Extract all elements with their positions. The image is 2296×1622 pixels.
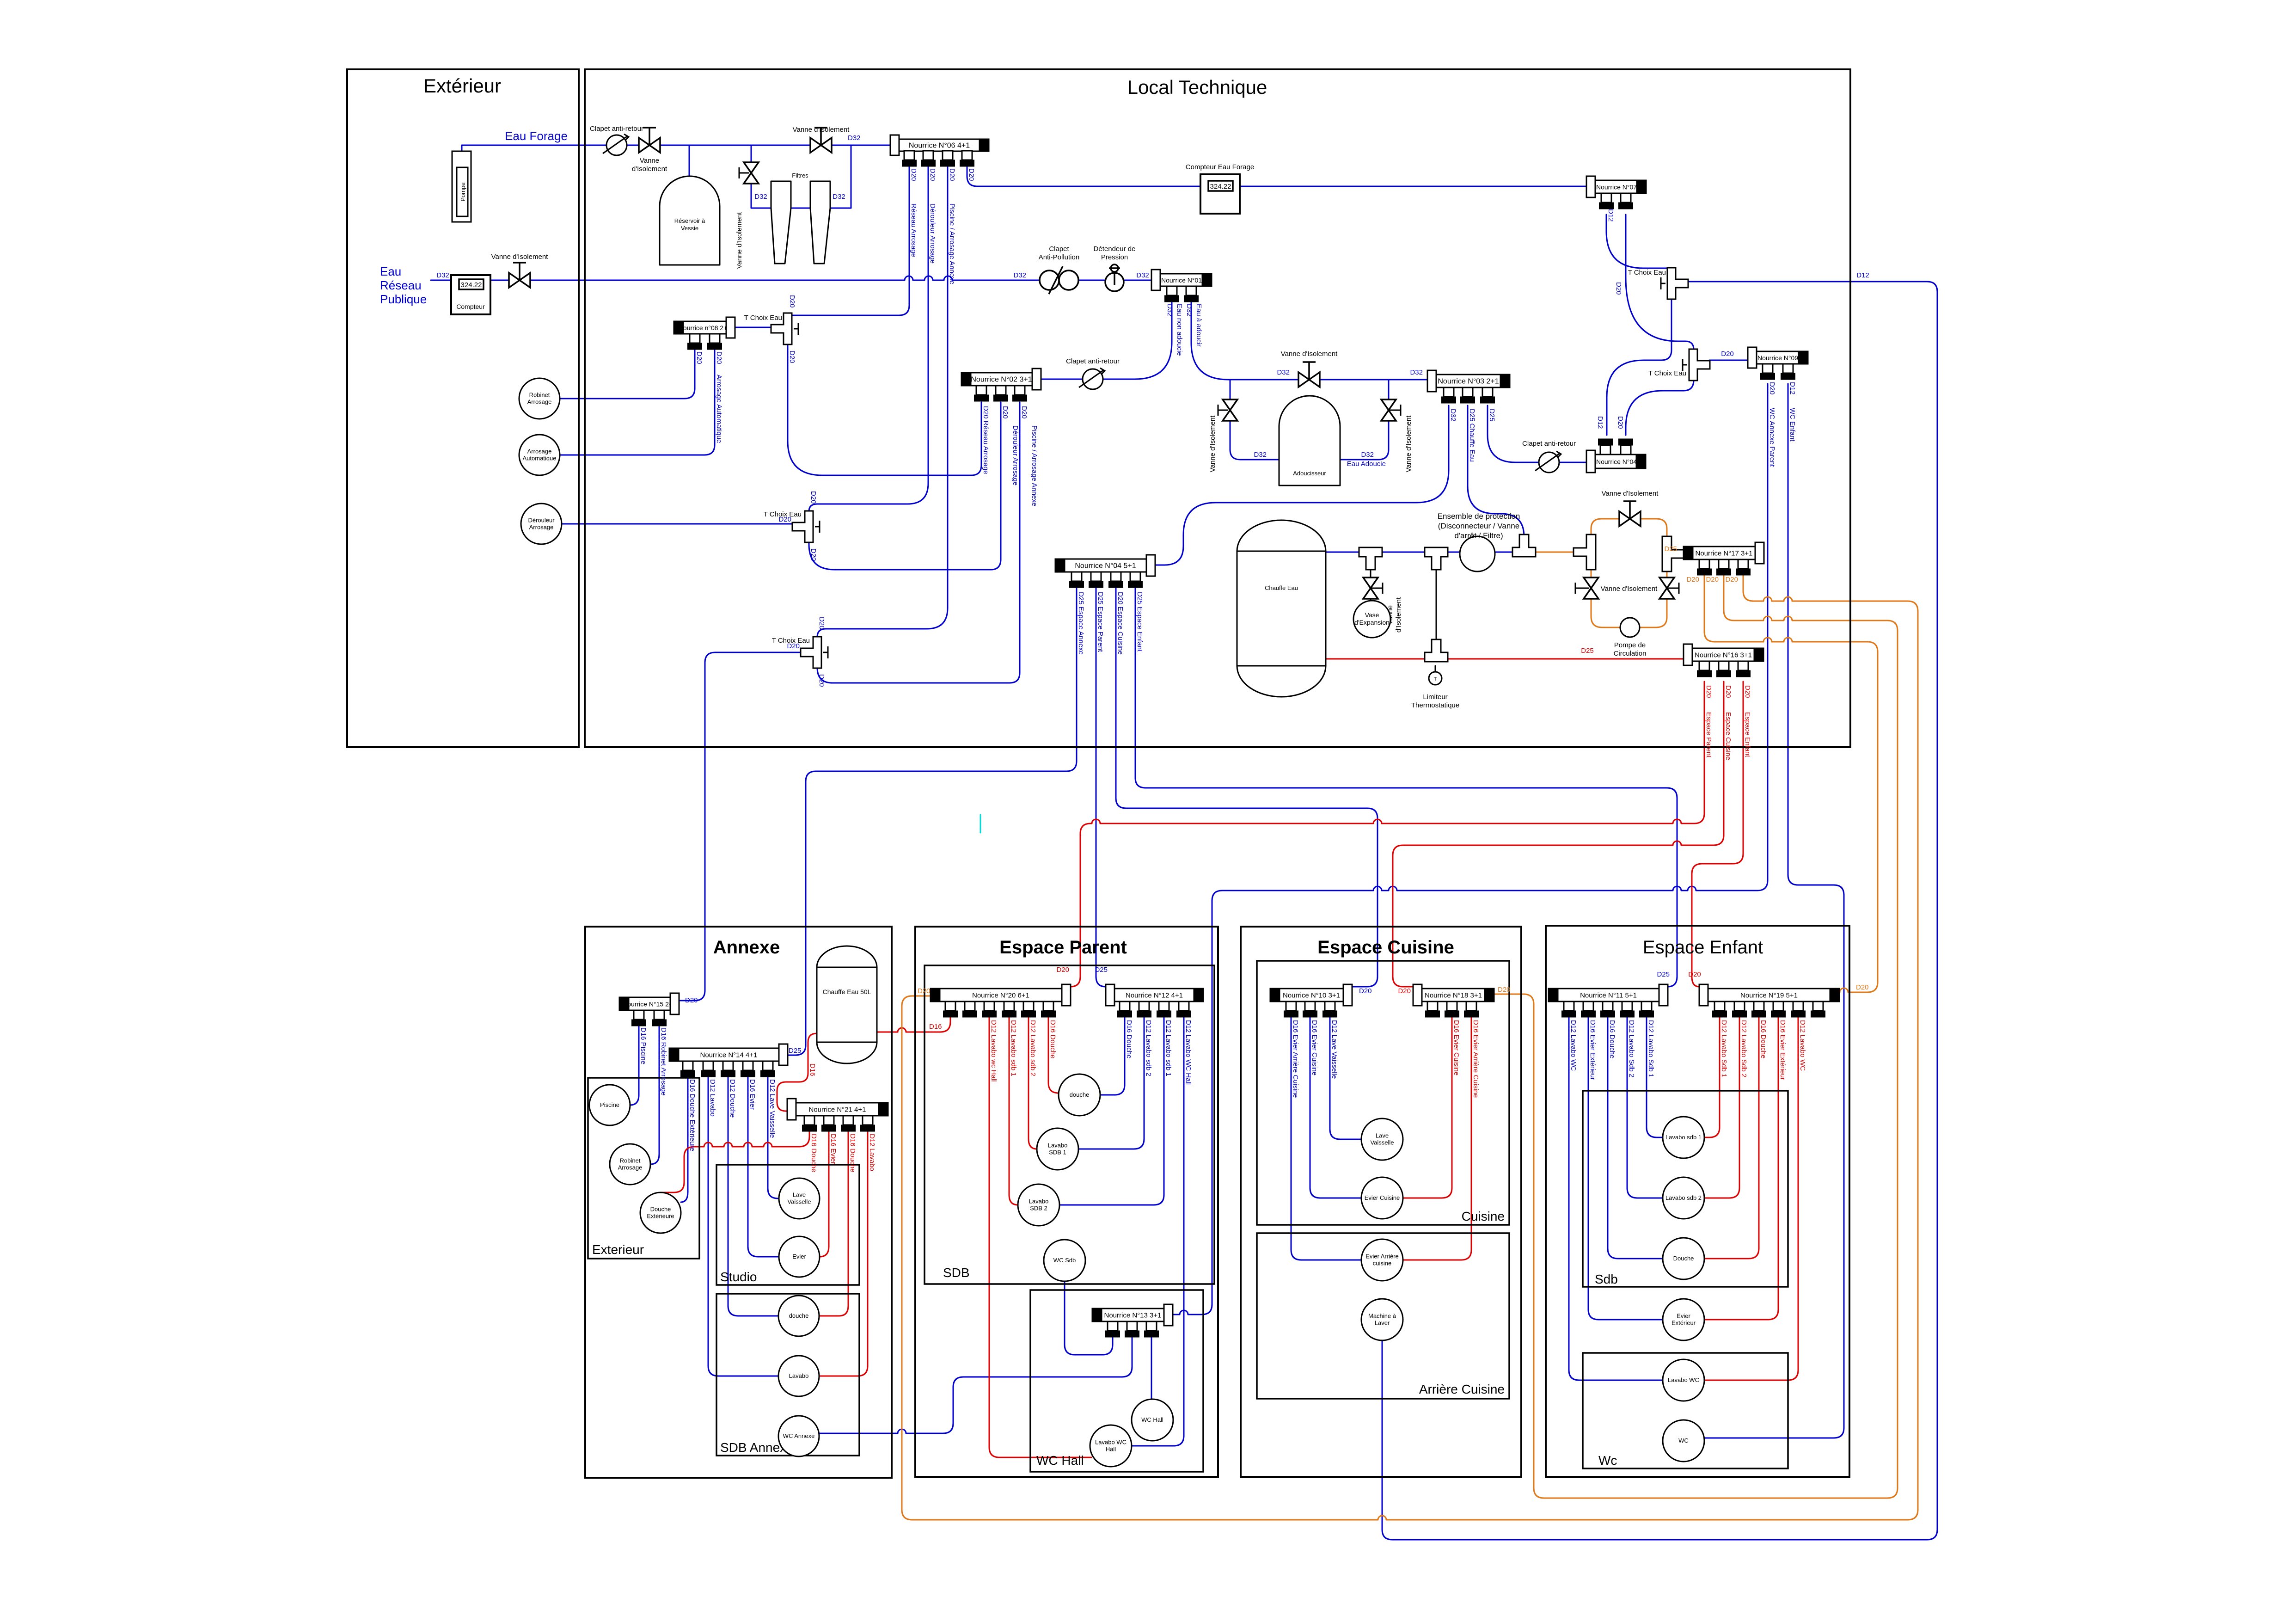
svg-text:D20: D20 <box>967 168 975 181</box>
svg-text:WC Enfant: WC Enfant <box>1788 408 1796 442</box>
svg-text:Limiteur: Limiteur <box>1423 693 1447 701</box>
cadre Cuisine <box>1257 961 1509 1225</box>
wire N20 p4 vers Lavabo SDB2 <box>1009 1016 1018 1205</box>
wire N15 p1 vers Piscine <box>630 1023 639 1105</box>
svg-text:Robinet: Robinet <box>529 392 550 399</box>
svg-text:Evier Arrière: Evier Arrière <box>1365 1253 1399 1260</box>
svg-text:D25: D25 <box>789 1047 802 1055</box>
svg-text:Wc: Wc <box>1598 1453 1617 1468</box>
svg-text:D16 Evier Arrière Cuisine: D16 Evier Arrière Cuisine <box>1472 1020 1480 1098</box>
svg-text:D20: D20 <box>1020 406 1028 419</box>
svg-text:Studio: Studio <box>720 1270 757 1284</box>
svg-text:Thermostatique: Thermostatique <box>1411 701 1459 709</box>
svg-text:Anti-Pollution: Anti-Pollution <box>1039 253 1079 261</box>
svg-text:WC Hall: WC Hall <box>1141 1416 1163 1423</box>
vanne isolement forage <box>639 138 660 153</box>
wire N06 p2 to T choix milieu <box>809 165 928 511</box>
wire N06 p3 to T choix bas <box>817 165 948 637</box>
svg-text:Compteur: Compteur <box>456 303 485 310</box>
svg-text:Espace Enfant: Espace Enfant <box>1744 712 1751 757</box>
svg-text:D32: D32 <box>1185 304 1193 317</box>
svg-text:D16 Douche Extérieure: D16 Douche Extérieure <box>688 1079 696 1151</box>
wire orange boucle haute <box>1591 519 1667 537</box>
T choix eau 1 <box>1667 268 1688 299</box>
svg-text:Nourrice N°16 3+1: Nourrice N°16 3+1 <box>1695 651 1752 659</box>
wire N19 p5 vers Lavabo WC enfant <box>1704 1016 1798 1380</box>
svg-text:D32: D32 <box>754 193 767 201</box>
clapet anti-retour forage <box>606 135 627 155</box>
svg-text:Réservoir à: Réservoir à <box>674 217 705 224</box>
svg-text:Nourrice N°12 4+1: Nourrice N°12 4+1 <box>1126 992 1183 1000</box>
svg-text:D12 Lavabo WC Hall: D12 Lavabo WC Hall <box>1184 1020 1192 1085</box>
wire N14 p2 vers Lavabo <box>708 1075 778 1376</box>
wire N14 p5 vers Lave Vaisselle <box>768 1075 778 1198</box>
nourrice N04 5+1 <box>1065 559 1146 572</box>
svg-text:D12 Lavabo wc Hall: D12 Lavabo wc Hall <box>990 1020 998 1081</box>
wire chauffe eau sortie froide vers ensemble <box>1326 552 1580 553</box>
svg-text:D25: D25 <box>1488 409 1496 422</box>
svg-text:Sdb: Sdb <box>1595 1272 1618 1286</box>
nourrice N15 2+1 <box>629 997 670 1010</box>
T choix eau bas <box>801 637 821 668</box>
cadre Exterieur <box>347 69 579 747</box>
cadre Annexe <box>585 927 892 1478</box>
svg-text:D16 Robinet Arrosage: D16 Robinet Arrosage <box>660 1027 667 1096</box>
svg-text:T Choix Eau: T Choix Eau <box>744 314 782 322</box>
nourrice N17 3+1 <box>1693 547 1755 559</box>
nourrice n08 2+1 <box>683 321 726 334</box>
cercle WC Annexe <box>778 1416 819 1456</box>
wire N21 p2 vers Evier studio <box>820 1129 829 1257</box>
wire N18 p3 vers Evier Arriere Cuisine <box>1403 1016 1471 1260</box>
wire N20 p5 vers Lavabo SDB1 <box>1029 1016 1037 1149</box>
svg-text:cuisine: cuisine <box>1373 1260 1391 1267</box>
vanne isolement gauche adoucisseur <box>1223 399 1237 421</box>
svg-text:d'arrêt / Filtre): d'arrêt / Filtre) <box>1454 531 1503 540</box>
cercle douche annexe <box>778 1296 819 1336</box>
svg-text:D12 Lavabo sdb 1: D12 Lavabo sdb 1 <box>1010 1020 1017 1076</box>
svg-text:D20: D20 <box>1725 576 1738 584</box>
cercle WC Hall <box>1132 1399 1173 1441</box>
svg-text:D25: D25 <box>1095 966 1108 974</box>
cercle Lavabo annexe <box>778 1356 819 1396</box>
svg-text:D20: D20 <box>1688 971 1701 978</box>
svg-text:Vanne d'Isolement: Vanne d'Isolement <box>1209 415 1217 472</box>
svg-text:Nourrice N°03 2+1: Nourrice N°03 2+1 <box>1438 378 1499 386</box>
svg-text:SDB: SDB <box>943 1266 970 1280</box>
svg-text:D12 Lave Vaisselle: D12 Lave Vaisselle <box>768 1079 776 1138</box>
svg-text:Piscine / Arrosage Annexe: Piscine / Arrosage Annexe <box>948 203 956 284</box>
cadre Espace Cuisine <box>1241 927 1521 1477</box>
svg-text:D20: D20 <box>948 168 956 181</box>
svg-text:Douche: Douche <box>650 1206 671 1213</box>
cercle Lavabo SDB 1 <box>1037 1128 1078 1170</box>
wire N20 p3 vers Lavabo WC Hall <box>989 1016 1091 1457</box>
wire rouge chauffe eau 50L vers N21 <box>777 1033 817 1111</box>
cadre SDB Annexe <box>716 1294 859 1456</box>
cercle Evier Arriere cuisine <box>1361 1239 1403 1281</box>
svg-text:D12 Lavabo Sdb 1: D12 Lavabo Sdb 1 <box>1647 1020 1655 1077</box>
svg-text:T: T <box>1434 676 1437 682</box>
wire T choix 2 bas vers N04 p2 <box>1626 380 1694 435</box>
svg-text:D16 Evier: D16 Evier <box>748 1079 756 1110</box>
cercle Derouleur Arrosage <box>521 504 562 544</box>
wire Derouleur Arrosage vers T choix milieu <box>562 523 793 525</box>
wire Eau Forage main line <box>462 145 890 154</box>
svg-text:D12 Douche: D12 Douche <box>729 1079 736 1118</box>
vanne isolement bypass adoucisseur <box>1298 372 1320 387</box>
svg-text:D20: D20 <box>910 168 918 181</box>
tee vase expansion <box>1359 547 1382 570</box>
wire N11 p5 vers Lavabo Sdb1 <box>1647 1016 1663 1137</box>
cercle Evier Cuisine <box>1361 1177 1403 1219</box>
wire N07 p2 vers T choix 2 <box>1626 215 1694 350</box>
svg-text:SDB 2: SDB 2 <box>1030 1205 1047 1212</box>
svg-text:D32: D32 <box>1254 451 1267 459</box>
svg-text:T Choix Eau: T Choix Eau <box>1628 269 1666 276</box>
nourrice N16 3+1 <box>1692 648 1754 661</box>
cercle Lavabo sdb 2 enfant <box>1663 1177 1704 1219</box>
svg-text:Lave: Lave <box>793 1192 806 1198</box>
wire N21 p3 vers douche annexe <box>819 1129 848 1316</box>
svg-text:D12 Lavabo WC: D12 Lavabo WC <box>1799 1020 1806 1071</box>
svg-text:D16 Evier Arrière Cuisine: D16 Evier Arrière Cuisine <box>1292 1020 1299 1098</box>
svg-text:D25 Espace Parent: D25 Espace Parent <box>1096 592 1104 652</box>
cercle Lavabo WC Hall <box>1090 1425 1132 1467</box>
cercle Evier Exterieur enfant <box>1663 1299 1704 1340</box>
svg-text:D20: D20 <box>1616 416 1624 429</box>
clapet anti-pollution <box>1040 270 1059 290</box>
svg-text:Clapet: Clapet <box>1049 245 1069 253</box>
wire N20 p6 vers douche parent <box>1048 1016 1059 1093</box>
svg-text:D20 Espace Cuisine: D20 Espace Cuisine <box>1116 592 1124 655</box>
svg-text:D16 Evier Extérieur: D16 Evier Extérieur <box>1779 1020 1787 1080</box>
svg-text:Annexe: Annexe <box>713 937 780 958</box>
svg-text:Dérouleur Arrosage: Dérouleur Arrosage <box>1011 425 1019 485</box>
wire N08 vers T choix haut <box>735 327 772 328</box>
nourrice N21 4+1 <box>796 1103 879 1116</box>
svg-text:D12: D12 <box>1856 271 1869 279</box>
nourrice N12 4+1 <box>1114 989 1194 1001</box>
limiteur thermostatique <box>1429 672 1442 685</box>
vanne isolement vase expansion <box>1363 578 1378 599</box>
svg-text:Chauffe Eau: Chauffe Eau <box>1265 584 1298 591</box>
nourrice N06 4+1 <box>899 139 980 151</box>
svg-text:WC Sdb: WC Sdb <box>1053 1257 1076 1264</box>
svg-text:Robinet: Robinet <box>620 1157 641 1164</box>
wire N02 vers clapet vers N01 p1 <box>1041 300 1172 379</box>
svg-text:D16 Piscine: D16 Piscine <box>639 1027 647 1064</box>
svg-text:Espace Enfant: Espace Enfant <box>1643 937 1763 958</box>
wire N07 p1 vers T choix 1 <box>1606 215 1671 268</box>
svg-text:SDB 1: SDB 1 <box>1049 1149 1066 1156</box>
vanne isolement reseau publique <box>509 273 530 288</box>
wire T choix 1 D12 vers machine a laver (grand trajet) <box>1382 282 1937 1540</box>
svg-text:Lavabo: Lavabo <box>789 1372 809 1379</box>
svg-text:D12 Lavabo sdb 2: D12 Lavabo sdb 2 <box>1029 1020 1037 1076</box>
nourrice N10 3+1 <box>1280 989 1343 1001</box>
wire T choix milieu bas vers N02 p2 <box>809 402 1001 570</box>
svg-text:D16 Douche: D16 Douche <box>1608 1020 1616 1058</box>
svg-text:Arrosage: Arrosage <box>527 448 552 455</box>
wire N21 p1 vers Douche Exterieure <box>661 1129 809 1192</box>
svg-text:D16 Douche: D16 Douche <box>1759 1020 1767 1058</box>
wire N04 5+1 p1 Espace Annexe vers N14 <box>788 587 1077 1055</box>
wire N12 p3 vers Lavabo SDB2 <box>1059 1016 1164 1205</box>
svg-text:Arrosage: Arrosage <box>529 524 554 531</box>
wire N14 p3 vers douche <box>728 1075 778 1316</box>
svg-text:Publique: Publique <box>380 292 427 306</box>
svg-text:Nourrice N°18 3+1: Nourrice N°18 3+1 <box>1425 992 1482 1000</box>
svg-text:Arrosage: Arrosage <box>527 399 552 405</box>
svg-text:D32: D32 <box>436 271 449 279</box>
svg-text:Lavabo WC: Lavabo WC <box>1668 1376 1699 1383</box>
cercle WC enfant <box>1663 1420 1704 1462</box>
svg-text:Automatique: Automatique <box>523 455 557 462</box>
svg-text:D12: D12 <box>1596 416 1604 429</box>
wire noir vase expansion <box>1370 566 1371 601</box>
wire orange N17 p1 vers N19 (bouclage enfant) <box>1704 574 1878 992</box>
wire N09 p1 WC Annexe Parent vers N13 <box>1173 384 1768 1315</box>
cercle Lave Vaisselle cuisine <box>1361 1118 1403 1160</box>
svg-text:Compteur Eau Forage: Compteur Eau Forage <box>1186 163 1254 171</box>
svg-text:Nourrice N°19 5+1: Nourrice N°19 5+1 <box>1740 992 1798 1000</box>
wire T choix haut bas vers N02 p1 <box>788 344 981 475</box>
chauffe eau principal <box>1237 520 1326 697</box>
svg-text:Vanne d'Isolement: Vanne d'Isolement <box>1601 585 1658 593</box>
wire orange N17 p2 vers N18 (bouclage cuisine) <box>1494 574 1898 1498</box>
svg-text:Vaisselle: Vaisselle <box>1370 1139 1394 1146</box>
tee boucle droite <box>1662 536 1684 571</box>
svg-text:Espace Parent: Espace Parent <box>999 937 1127 958</box>
cadre Wc enfant <box>1583 1353 1788 1468</box>
svg-text:D20: D20 <box>788 350 796 363</box>
svg-text:Vanne d'Isolement: Vanne d'Isolement <box>793 126 850 134</box>
nourrice N18 3+1 <box>1422 989 1485 1001</box>
svg-text:Nourrice N°15 2+1: Nourrice N°15 2+1 <box>623 1001 676 1008</box>
wire N03 p1 vers Nourrice N04 5+1 <box>1155 405 1449 565</box>
svg-text:Nourrice N°13 3+1: Nourrice N°13 3+1 <box>1104 1312 1162 1320</box>
vannes isolement boucle basses <box>1584 578 1598 599</box>
svg-text:Réseau Arrosage: Réseau Arrosage <box>910 203 918 257</box>
svg-text:Filtres: Filtres <box>792 172 808 179</box>
svg-text:Arrosage: Arrosage <box>618 1164 643 1171</box>
svg-text:Vanne d'Isolement: Vanne d'Isolement <box>1281 350 1338 358</box>
svg-text:D12 Lave Vaisselle: D12 Lave Vaisselle <box>1330 1020 1338 1079</box>
wire N19 p2 vers Lavabo sdb2 enfant <box>1704 1016 1739 1198</box>
wire Robinet Arrosage vers N08 p1 <box>560 348 695 399</box>
svg-text:D20: D20 <box>685 996 698 1004</box>
svg-text:Nourrice N°21 4+1: Nourrice N°21 4+1 <box>809 1106 866 1114</box>
svg-text:Espace Parent: Espace Parent <box>1705 712 1713 758</box>
svg-text:D20: D20 <box>1686 576 1699 584</box>
svg-text:D20: D20 <box>1721 350 1734 358</box>
adoucisseur <box>1279 396 1340 485</box>
svg-text:Vase: Vase <box>1365 611 1379 619</box>
wire N21 p4 vers Lavabo annexe <box>819 1129 868 1376</box>
cercle Robinet Arrosage <box>519 378 560 419</box>
svg-text:D12 Lavabo: D12 Lavabo <box>868 1134 876 1171</box>
wire N03 p3 vers clapet vers N04 2+ <box>1488 405 1586 462</box>
wire N16 p2 vers N18 Espace Cuisine <box>1393 682 1724 987</box>
svg-text:Evier Cuisine: Evier Cuisine <box>1365 1194 1400 1201</box>
clapet anti-retour N02 <box>1083 369 1103 389</box>
svg-text:D16 Douche: D16 Douche <box>810 1134 818 1172</box>
svg-text:D20: D20 <box>818 617 826 630</box>
svg-text:D20: D20 <box>1744 685 1751 698</box>
svg-text:D25: D25 <box>1657 971 1670 978</box>
chauffe eau 50L <box>817 946 877 1063</box>
svg-text:D32: D32 <box>1136 271 1149 279</box>
svg-text:Piscine: Piscine <box>600 1101 619 1108</box>
svg-text:D12: D12 <box>1788 382 1796 395</box>
cadre Studio <box>716 1165 859 1285</box>
wire N12 p4 vers Lavabo WC Hall <box>1132 1016 1184 1446</box>
svg-text:Circulation: Circulation <box>1614 650 1647 657</box>
nourrice N13 3+1 <box>1102 1309 1164 1321</box>
tee boucle gauche <box>1574 535 1596 570</box>
svg-text:Arrière Cuisine: Arrière Cuisine <box>1419 1382 1505 1396</box>
nourrice N01 2+1 <box>1160 274 1202 286</box>
wire Eau Reseau Publique main <box>431 276 1151 280</box>
svg-text:Arrosage Automatique: Arrosage Automatique <box>715 375 723 443</box>
svg-text:D20: D20 <box>918 987 931 995</box>
nourrice N03 2+1 <box>1436 375 1500 387</box>
wire noir limiteur <box>1435 666 1436 672</box>
wire N15 p2 vers Robinet Arrosage <box>650 1023 659 1164</box>
svg-text:WC Annexe: WC Annexe <box>783 1432 815 1439</box>
wire orange N17 p3 vers N20 via Annexe (bouclage parent) <box>902 574 1918 1520</box>
vanne isolement droite adoucisseur <box>1381 399 1396 421</box>
svg-text:D20: D20 <box>778 516 791 523</box>
svg-text:D20: D20 <box>929 168 937 181</box>
svg-text:Nourrice N°17 3+1: Nourrice N°17 3+1 <box>1696 550 1753 558</box>
wire N06 port4 to compteur forage to N07 <box>967 165 1586 186</box>
wire N04 5+1 p4 Espace Enfant vers N11 <box>1135 587 1677 987</box>
compteur eau forage <box>1200 174 1240 214</box>
svg-text:D20: D20 <box>1056 966 1069 974</box>
svg-text:D12: D12 <box>1607 209 1615 222</box>
svg-text:Eau Forage: Eau Forage <box>505 129 568 143</box>
wire N04 5+1 p2 Espace Parent vers N12 <box>1096 587 1106 987</box>
svg-text:Nourrice N°04 5+1: Nourrice N°04 5+1 <box>1075 562 1136 570</box>
wire N14 p1 vers Douche Exterieure <box>681 1075 688 1202</box>
svg-text:Espace Cuisine: Espace Cuisine <box>1724 712 1732 760</box>
cercle douche parent <box>1059 1074 1100 1116</box>
svg-text:D16 Douche: D16 Douche <box>1125 1020 1133 1058</box>
cercle Machine a Laver <box>1361 1299 1403 1340</box>
svg-text:Evier: Evier <box>792 1253 806 1260</box>
svg-text:D25: D25 <box>1581 647 1594 655</box>
svg-text:D32: D32 <box>833 193 845 201</box>
svg-text:Hall: Hall <box>1106 1446 1116 1453</box>
svg-text:D20: D20 <box>1498 986 1511 994</box>
svg-text:Vessie: Vessie <box>681 225 698 232</box>
svg-text:D32: D32 <box>1410 369 1423 376</box>
svg-text:Eau Adoucie: Eau Adoucie <box>1347 460 1386 468</box>
clapet anti-retour N03 <box>1539 452 1559 473</box>
svg-text:douche: douche <box>1070 1091 1090 1098</box>
svg-text:D20: D20 <box>1706 576 1719 584</box>
svg-text:D12 Lavabo: D12 Lavabo <box>709 1079 716 1117</box>
svg-text:Extérieure: Extérieure <box>647 1213 674 1220</box>
svg-text:D12 Lavabo WC: D12 Lavabo WC <box>1569 1020 1577 1071</box>
svg-text:D12 Lavabo Sdb 2: D12 Lavabo Sdb 2 <box>1628 1020 1635 1077</box>
svg-text:Nourrice N°11 5+1: Nourrice N°11 5+1 <box>1580 992 1637 1000</box>
svg-text:D20 Réseau Arrosage: D20 Réseau Arrosage <box>982 406 990 474</box>
svg-text:Nourrice N°06 4+1: Nourrice N°06 4+1 <box>909 142 970 150</box>
svg-text:D20: D20 <box>695 351 703 364</box>
wire N18 p2 vers Evier Cuisine <box>1403 1016 1452 1198</box>
svg-text:D16 Evier: D16 Evier <box>829 1134 837 1164</box>
wire N11 p4 vers Lavabo Sdb2 <box>1627 1016 1663 1198</box>
wire rouge chauffe eau 50L vers N20 p1 <box>877 1016 950 1032</box>
svg-text:D32: D32 <box>1449 409 1457 422</box>
wire N06 p1 to T choix haut <box>792 165 909 315</box>
svg-text:D20: D20 <box>818 674 826 687</box>
svg-text:Eau non adoucie: Eau non adoucie <box>1176 304 1183 356</box>
svg-text:D20: D20 <box>715 351 723 364</box>
svg-text:(Disconnecteur / Vanne: (Disconnecteur / Vanne <box>1438 522 1519 530</box>
svg-text:324.22: 324.22 <box>461 281 482 289</box>
svg-text:D20: D20 <box>1768 382 1776 395</box>
nourrice N07 2+ <box>1595 180 1637 193</box>
svg-text:Dérouleur: Dérouleur <box>528 517 555 524</box>
nourrice N14 4+1 <box>679 1048 779 1061</box>
svg-text:D20: D20 <box>809 491 817 504</box>
svg-text:D20: D20 <box>788 295 796 308</box>
cercle Lavabo SDB 2 <box>1018 1184 1059 1226</box>
svg-text:Lavabo sdb 2: Lavabo sdb 2 <box>1665 1194 1702 1201</box>
wire reservoir branch <box>689 145 690 177</box>
svg-text:Lave: Lave <box>1376 1132 1389 1139</box>
svg-text:Détendeur de: Détendeur de <box>1094 245 1136 253</box>
svg-text:Laver: Laver <box>1375 1320 1390 1327</box>
svg-text:Nourrice N°14 4+1: Nourrice N°14 4+1 <box>700 1051 758 1059</box>
nourrice N19 5+1 <box>1708 989 1830 1001</box>
wire N10 p3 vers Lave Vaisselle cuisine <box>1330 1016 1361 1139</box>
svg-text:Vanne d'Isolement: Vanne d'Isolement <box>1405 415 1413 472</box>
wire N19 p4 vers Evier Exterieur enfant <box>1704 1016 1778 1320</box>
svg-text:D16 Douche: D16 Douche <box>849 1134 857 1172</box>
svg-text:Espace Cuisine: Espace Cuisine <box>1317 937 1454 958</box>
svg-text:Vanne: Vanne <box>640 157 659 165</box>
wire T choix bas vers Nourrice N15 Annexe <box>679 652 802 1001</box>
wire N19 p3 vers Douche enfant <box>1704 1016 1759 1259</box>
wire T choix 2 vers N09 <box>1709 360 1748 361</box>
cadre Sdb enfant <box>1583 1091 1788 1287</box>
tee rouge limiteur <box>1425 639 1448 662</box>
svg-text:Eau: Eau <box>380 264 401 278</box>
wire orange ensemble vers boucle pompe <box>1529 552 1580 553</box>
cercle Arrosage Automatique <box>519 435 560 475</box>
reservoir a vessie <box>660 176 720 265</box>
svg-text:D20: D20 <box>1615 282 1623 295</box>
svg-text:Vanne d'Isolement: Vanne d'Isolement <box>491 253 548 261</box>
nourrice N02 3+1 <box>971 373 1032 386</box>
cadre Arriere Cuisine <box>1257 1233 1509 1399</box>
T choix eau 2 <box>1689 349 1710 381</box>
tee limiteur haut <box>1425 547 1448 570</box>
wire N13 p2 vers WC Annexe <box>819 1337 1132 1433</box>
svg-text:Cuisine: Cuisine <box>1462 1209 1505 1223</box>
svg-text:D16 Evier Cuisine: D16 Evier Cuisine <box>1310 1020 1318 1075</box>
svg-text:Nourrice N°02 3+1: Nourrice N°02 3+1 <box>971 376 1032 384</box>
nourrice N04 2+ <box>1595 455 1636 468</box>
svg-text:D12 Lavabo sdb 2: D12 Lavabo sdb 2 <box>1145 1020 1152 1076</box>
svg-text:D25 Espace Annexe: D25 Espace Annexe <box>1077 592 1085 655</box>
wire N11 p2 vers Evier Exterieur <box>1588 1016 1663 1320</box>
